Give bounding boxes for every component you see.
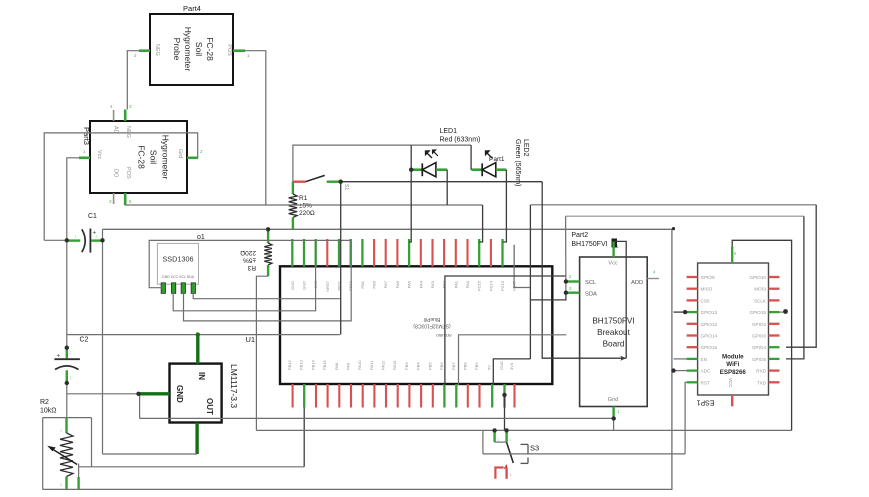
svg-text:PA3: PA3 (430, 280, 435, 288)
pin GND of o1 (161, 283, 165, 294)
pin bottom 12 PB4 of U1 (unrouted) (420, 384, 422, 408)
svg-text:PA1: PA1 (453, 280, 458, 288)
wire C2 bottom to LM GND (67, 393, 139, 395)
svg-text:R1: R1 (299, 195, 308, 202)
wire LED1 cathode to feed and U-pin11 (409, 145, 411, 242)
wire node44 into C1 (44, 239, 67, 241)
pin IN of LM1117 (196, 335, 199, 364)
svg-text:Module: Module (722, 354, 744, 361)
pin MOSI of ESP1 (unrouted) (769, 288, 780, 290)
svg-text:R3: R3 (247, 264, 256, 271)
svg-text:PC13: PC13 (500, 280, 505, 291)
svg-text:PC15: PC15 (477, 280, 482, 291)
wire bus205 down right column (529, 205, 531, 359)
wire SDA BH segment (530, 293, 566, 300)
svg-text:PB15: PB15 (322, 359, 327, 370)
wire pot frame right (91, 418, 93, 467)
wire BH Gnd to bus430 (613, 417, 615, 431)
pin OUT of LM1117 (195, 423, 198, 455)
svg-text:BluePill: BluePill (424, 316, 441, 322)
module ESP1 ESP8266 WiFi (698, 263, 769, 395)
junction R3 top on 3V3 bus (266, 227, 270, 231)
wire IN net y334 (67, 334, 340, 336)
pin bottom 16 PB8 of U1 (unrouted) (467, 384, 469, 408)
svg-text:GPIO12: GPIO12 (701, 322, 718, 327)
svg-text:POS: POS (125, 167, 131, 179)
svg-text:LED1: LED1 (440, 128, 458, 135)
svg-text:10kΩ: 10kΩ (40, 408, 57, 415)
svg-text:Hygrometer: Hygrometer (183, 27, 193, 72)
junction node C1 right (100, 238, 104, 242)
wire C2 bottom down (66, 383, 68, 418)
pin 1 GND of U1 (291, 239, 293, 267)
svg-text:2: 2 (96, 235, 98, 239)
pin GPIO14 of ESP1 (unrouted) (687, 334, 698, 336)
wire EN to column (674, 358, 687, 360)
svg-text:SDA: SDA (585, 292, 597, 298)
svg-text:PB12: PB12 (287, 359, 292, 370)
svg-text:PA15: PA15 (392, 360, 397, 370)
svg-text:IN: IN (197, 372, 206, 380)
wire col530 step to U bottom pin18 (493, 359, 530, 385)
pin wiper of R2 (78, 464, 80, 478)
junction U GND pin (502, 393, 506, 397)
wire 3V3 bus y228 (103, 228, 674, 230)
wire LED2 anode to U-pin19 (503, 170, 507, 242)
pin RXD of ESP1 (unrouted) (769, 369, 780, 371)
pin 5 POS of Part3 (124, 193, 127, 205)
pin bottom 17 PB9 of U1 (unrouted) (478, 384, 480, 408)
svg-text:PB0: PB0 (372, 280, 377, 288)
pin 4 NRST of U1 (unrouted) (326, 239, 328, 267)
wire S3 frame left riser (482, 430, 484, 454)
wire RST down to RST line (685, 382, 687, 454)
wire Part3-Vcc to node C1 (67, 158, 79, 241)
svg-text:Grd: Grd (177, 149, 183, 158)
wire LM OUT to C1 right (103, 453, 198, 455)
pin 2 Grd of Part3 (187, 157, 198, 160)
wire BH Vcc riser (614, 241, 627, 358)
svg-text:OUT: OUT (205, 398, 214, 415)
wire o1 VCC to U-pin3 (173, 240, 315, 311)
wire U pin2 bottom to wiper line (303, 408, 305, 467)
pin bottom 10 PA15 of U1 (unrouted) (397, 384, 399, 408)
svg-text:PA2: PA2 (442, 280, 447, 288)
svg-text:EN: EN (701, 357, 707, 362)
wire U GND pin to bus430 (504, 395, 506, 431)
pin RST of ESP1 (687, 381, 698, 383)
module Part2 BH1750FVI breakout (580, 257, 648, 407)
wire o1 SDA to S1 net (193, 292, 340, 299)
junction C2 top (65, 346, 69, 350)
svg-text:ESP8266: ESP8266 (720, 369, 747, 376)
pin 12 PA4 of U1 (unrouted) (420, 239, 422, 267)
svg-text:GND VCC SCL SDA: GND VCC SCL SDA (162, 275, 195, 279)
svg-text:GPIO2: GPIO2 (752, 322, 766, 327)
pin VCC of o1 (171, 283, 175, 294)
wire o1 SCL to U-pin6 (184, 240, 352, 321)
svg-text:1: 1 (75, 235, 77, 239)
pin SCL of o1 (181, 283, 185, 294)
svg-text:Probe: Probe (172, 38, 182, 61)
svg-text:Gnd: Gnd (608, 397, 618, 403)
svg-text:GPIO9: GPIO9 (701, 275, 715, 280)
pin bottom 1 PB12 of U1 (unrouted) (292, 384, 294, 408)
svg-text:Soil: Soil (194, 42, 204, 56)
pin 20 VBAT of U1 (513, 245, 515, 267)
svg-text:S3: S3 (530, 444, 539, 453)
wire Part4-POS down to POS net (245, 51, 266, 205)
pin bottom 20 3V3 of U1 (unrouted) (513, 384, 515, 408)
svg-text:PB1: PB1 (360, 280, 365, 288)
resistor R1 220 Ohm 5% (292, 182, 294, 194)
pin GPIO5 of ESP1 (769, 358, 780, 360)
wire VBAT to bus205 (514, 245, 530, 288)
svg-text:LM1117-3.3: LM1117-3.3 (229, 364, 239, 408)
svg-text:GPIO14: GPIO14 (701, 334, 718, 339)
pin GPIO16 of ESP1 (unrouted) (687, 346, 698, 348)
svg-text:MOSI: MOSI (754, 287, 766, 292)
wire GPIO13 to column (674, 311, 686, 313)
svg-text:PB6: PB6 (439, 362, 444, 370)
junction LED1 cathode (409, 168, 413, 172)
wire Part4-NEG to Part3-NEG (127, 51, 139, 110)
junction GPIO13 (683, 310, 687, 314)
pin bottom 8 PA11 of U1 (unrouted) (373, 384, 375, 408)
pin MISO of ESP1 (unrouted) (687, 288, 698, 290)
svg-text:+: + (57, 353, 61, 360)
svg-text:ADD: ADD (631, 280, 643, 286)
svg-text:LED2: LED2 (522, 139, 529, 157)
wire LM GND down to GND bus418 (139, 394, 141, 419)
svg-text:1: 1 (498, 438, 500, 442)
wire LED feed from S1 node (293, 145, 471, 182)
IC U1 BluePill STM32F103C8 (280, 266, 552, 384)
pin 16 PA0 of U1 (unrouted) (466, 239, 468, 267)
pin bottom 13 PB5 of U1 (unrouted) (432, 384, 434, 408)
svg-text:Green (565nm): Green (565nm) (514, 139, 521, 186)
pin GND of LM1117 (139, 392, 170, 395)
svg-text:MISO: MISO (701, 287, 713, 292)
pin EN of ESP1 (687, 358, 698, 360)
svg-text:PB8: PB8 (462, 362, 467, 370)
pin GPIO4 of ESP1 (769, 346, 780, 348)
pin GPIO15 of ESP1 (769, 311, 780, 313)
pin 17 PC15 of U1 (478, 239, 480, 267)
pin 2 GND of U1 (303, 239, 305, 267)
pin 2 SCL of BH1750 (567, 280, 580, 282)
svg-text:GPIO15: GPIO15 (749, 310, 766, 315)
svg-text:PB7: PB7 (451, 362, 456, 370)
pin 7 PB1 of U1 (361, 239, 363, 267)
wire I2C bus riser to BH pins (565, 216, 567, 293)
wire I2C bus y216 (566, 215, 804, 217)
pin bottom 11 PB3 of U1 (unrouted) (408, 384, 410, 408)
svg-text:GND: GND (499, 361, 504, 370)
resistor R3 220 Ohm (267, 229, 269, 243)
pin bottom 4 PB15 of U1 (unrouted) (327, 384, 329, 408)
switch S3 (493, 430, 495, 442)
svg-text:PA6: PA6 (395, 280, 400, 288)
pin GPIO9 of ESP1 (unrouted) (687, 276, 698, 278)
svg-text:GPIO13: GPIO13 (701, 310, 718, 315)
pin TXD of ESP1 (unrouted) (769, 381, 780, 383)
svg-text:220Ω: 220Ω (240, 249, 256, 256)
wire ADC to column (674, 370, 687, 372)
svg-text:Vcc: Vcc (96, 150, 102, 159)
svg-text:NRST: NRST (325, 280, 330, 291)
svg-text:R2: R2 (40, 399, 49, 406)
svg-text:GND: GND (290, 281, 295, 290)
pin 3 NEG of Part3 (124, 110, 127, 122)
wire Part3-AD/Grd loop (44, 133, 198, 240)
svg-text:BH1750FVI: BH1750FVI (592, 317, 634, 326)
svg-text:RST: RST (701, 380, 710, 385)
junction SDA (564, 291, 568, 295)
svg-text:ESP1: ESP1 (696, 399, 714, 406)
svg-text:NEG: NEG (154, 44, 160, 56)
svg-text:PB4: PB4 (416, 362, 421, 370)
svg-text:PA5: PA5 (407, 280, 412, 288)
wire S1 to SDA vertical (340, 182, 342, 335)
wire RST net long line (483, 453, 685, 455)
svg-text:Part4: Part4 (183, 4, 201, 13)
pin bottom 6 PA9 of U1 (unrouted) (350, 384, 352, 408)
junction C2 bottom (65, 381, 69, 385)
wire LED1 anode to POS bus (446, 170, 448, 205)
regulator LM1117-3.3 (170, 364, 222, 423)
pin 13 PA3 of U1 (unrouted) (431, 239, 433, 267)
svg-text:SSD1306: SSD1306 (162, 255, 193, 264)
junction SCL (564, 279, 568, 283)
wire bus216 down to GPIO5 (786, 216, 804, 359)
pin bottom 18 5V of U1 (491, 384, 493, 408)
pin 14 PA2 of U1 (unrouted) (443, 239, 445, 267)
pin 3 3V3 of U1 (315, 239, 317, 267)
svg-text:POS: POS (226, 44, 232, 56)
svg-text:PA8: PA8 (334, 362, 339, 370)
svg-text:220Ω: 220Ω (299, 210, 315, 217)
svg-text:GPIO10: GPIO10 (749, 275, 766, 280)
wire S1 to BH1750 Vcc (341, 181, 543, 183)
svg-text:C1: C1 (88, 213, 97, 220)
pin 18 PC14 of U1 (unrouted) (490, 239, 492, 267)
svg-text:NEG: NEG (125, 126, 131, 138)
pin bottom 14 PB6 of U1 (443, 384, 445, 408)
svg-text:SCLK: SCLK (754, 298, 767, 303)
svg-text:Hygrometer: Hygrometer (161, 135, 171, 180)
wire GND bottom bus (43, 229, 672, 490)
svg-text:PA4: PA4 (418, 280, 423, 288)
svg-text:1: 1 (60, 429, 62, 433)
svg-text:PB9: PB9 (474, 362, 479, 370)
pin bottom 2 PB13 of U1 (303, 384, 305, 408)
svg-text:BH1750FVI: BH1750FVI (571, 241, 607, 248)
svg-text:Part2: Part2 (571, 232, 588, 239)
junction bus3 corner (672, 227, 675, 230)
pin SCLK of ESP1 (unrouted) (769, 299, 780, 301)
svg-text:Arduino: Arduino (436, 333, 452, 338)
svg-text:2: 2 (510, 438, 512, 442)
pin GPIO2 of ESP1 (unrouted) (769, 323, 780, 325)
svg-text:±5%: ±5% (243, 257, 256, 264)
pin 11 PA5 of U1 (408, 239, 410, 267)
svg-text:PC14: PC14 (488, 280, 493, 291)
pin bottom 7 PA10 of U1 (unrouted) (362, 384, 364, 408)
svg-text:3: 3 (510, 473, 512, 477)
pin NC of S3 (unrouted) (504, 464, 508, 470)
svg-text:GND: GND (175, 385, 184, 403)
pin 1 POS of Part4 (233, 49, 245, 52)
svg-text:PA9: PA9 (346, 362, 351, 370)
svg-text:DO: DO (113, 169, 119, 178)
pin bottom VCC of ESP1 (unrouted) (731, 395, 733, 406)
wire bus205 down to GPIO4 (786, 205, 816, 347)
pin 4 AD of Part3 (unconnected) (113, 110, 115, 121)
svg-text:Vcc: Vcc (608, 261, 617, 267)
svg-text:GPIO4: GPIO4 (752, 345, 766, 350)
svg-text:3V3: 3V3 (509, 362, 514, 370)
junction GPIO15 (783, 309, 788, 314)
svg-text:S1: S1 (343, 184, 349, 190)
svg-text:PA12: PA12 (381, 360, 386, 370)
wire wiper to U pin (79, 466, 305, 468)
svg-text:Red (633nm): Red (633nm) (440, 137, 481, 144)
pin 5 PB11 of U1 (338, 239, 340, 267)
svg-text:GPIO5: GPIO5 (752, 357, 766, 362)
wire GND bus y418 (140, 417, 614, 419)
pin GPIO10 of ESP1 (unrouted) (769, 276, 780, 278)
pin 1 Gnd of BH1750 (612, 407, 614, 417)
wire feed down to LED2 cathode (470, 145, 472, 170)
svg-text:2: 2 (70, 376, 72, 380)
junction LM GND (136, 392, 140, 396)
wire GPIO15 stub out (780, 311, 787, 313)
pin bottom 9 PA12 of U1 (unrouted) (385, 384, 387, 408)
wire pot frame top (43, 417, 92, 419)
pin GPIO13 of ESP1 (687, 311, 698, 313)
wire R3 bottom to GND bus right (256, 276, 268, 430)
junction S3 left (492, 428, 496, 432)
pin 3 DO of Part3 (unconnected) (113, 193, 115, 204)
svg-text:PA7: PA7 (383, 280, 388, 288)
svg-text:Board: Board (603, 340, 625, 349)
svg-text:GPIO0: GPIO0 (752, 334, 766, 339)
junction S3 right (504, 428, 508, 432)
svg-text:C2: C2 (80, 337, 89, 344)
pin NC2 of S3 (unrouted) (495, 468, 503, 479)
svg-text:1: 1 (70, 351, 72, 355)
pin top GPIO11 of ESP1 (731, 247, 733, 263)
svg-text:SCL: SCL (585, 280, 597, 286)
svg-text:WiFi: WiFi (726, 361, 739, 368)
svg-text:PA0: PA0 (465, 280, 470, 288)
pin 15 PA1 of U1 (unrouted) (455, 239, 457, 267)
wire C1-right vertical (102, 229, 104, 454)
junction node C1 left (65, 238, 69, 242)
svg-text:FC-28: FC-28 (205, 37, 215, 61)
wire VBAT net bus y205 right (531, 204, 816, 206)
wire ESP top pin loop to bus430 (732, 240, 791, 430)
svg-text:PB3: PB3 (404, 362, 409, 370)
svg-text:U1: U1 (246, 335, 256, 344)
svg-text:PB5: PB5 (427, 362, 432, 370)
pin 1 Vcc of Part3 (79, 157, 90, 160)
module Part4 FC-28 Soil Hygrometer Probe (150, 14, 233, 85)
pin 3 SDA of BH1750 (567, 292, 580, 294)
svg-text:Part3: Part3 (82, 127, 91, 145)
pin 4 ADD of BH1750 (unconnected) (647, 278, 659, 280)
pin 2 NEG of Part4 (139, 49, 150, 52)
junction ADC column (671, 368, 675, 372)
pin 19 PC13 of U1 (501, 239, 503, 267)
svg-text:Soil: Soil (149, 150, 159, 164)
pin 1 Vcc of BH1750 (612, 241, 614, 257)
module Part3 FC-28 Soil Hygrometer (90, 121, 187, 193)
svg-text:RXD: RXD (756, 369, 766, 374)
svg-text:GPIO16: GPIO16 (701, 345, 718, 350)
wire SCL BH to U bottom pin14 (445, 276, 566, 385)
pin bottom 15 PB7 of U1 (455, 384, 457, 408)
wire y335 segment to U bottom pin15 (459, 335, 567, 385)
svg-text:±5%: ±5% (299, 203, 312, 210)
pin bottom 19 GND of U1 (503, 384, 505, 408)
svg-text:TXD: TXD (757, 380, 767, 385)
wire POS net bus y205 left (125, 204, 483, 206)
svg-text:5V: 5V (487, 365, 492, 370)
svg-text:GND: GND (302, 281, 307, 290)
pin 9 PA7 of U1 (unrouted) (385, 239, 387, 267)
junction BH Gnd on bus418 (612, 416, 616, 420)
svg-text:PB13: PB13 (299, 359, 304, 370)
wire pot frame left (42, 418, 44, 490)
wire GND bus y430 (256, 429, 791, 431)
junction LM IN on y334 (196, 332, 200, 336)
pin bottom 3 PB14 of U1 (unrouted) (315, 384, 317, 408)
pin ADC of ESP1 (687, 369, 698, 371)
pin GPIO12 of ESP1 (unrouted) (687, 323, 698, 325)
pin bottom 5 PA8 of U1 (unrouted) (338, 384, 340, 408)
pin 6 PB10 of U1 (350, 239, 352, 267)
wire o1 GND around module to pin6 riser (149, 240, 351, 287)
svg-text:PA11: PA11 (369, 360, 374, 370)
wire C1 to C2 vertical (66, 240, 68, 347)
svg-text:PA10: PA10 (357, 360, 362, 370)
switch S1 (293, 180, 306, 182)
svg-text:FC-28: FC-28 (137, 145, 147, 169)
module o1 SSD1306 OLED (157, 243, 198, 284)
junction S1 output (339, 180, 343, 184)
svg-text:VCC: VCC (728, 378, 733, 388)
pin 8 PB0 of U1 (unrouted) (373, 239, 375, 267)
pin SDA of o1 (191, 283, 195, 294)
pin CS0 of ESP1 (unrouted) (687, 299, 698, 301)
pin 10 PA6 of U1 (unrouted) (396, 239, 398, 267)
svg-text:ADC: ADC (701, 369, 711, 374)
svg-text:CS0: CS0 (701, 298, 710, 303)
svg-text:PB14: PB14 (311, 359, 316, 370)
pin GPIO0 of ESP1 (unrouted) (769, 334, 780, 336)
svg-text:2: 2 (60, 483, 62, 487)
wire POS bus to U-pin17 (479, 205, 482, 242)
